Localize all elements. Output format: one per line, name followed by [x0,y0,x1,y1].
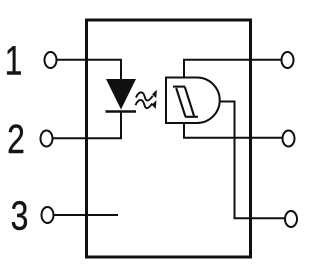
wire pin3 stub (N.C.) [54,214,119,216]
svg-text:1: 1 [5,38,23,84]
wire pin2 to LED cathode [53,112,122,139]
svg-text:3: 3 [11,193,29,239]
light emission arrow (lower) [136,100,157,109]
LED (infrared emitter) [106,79,136,110]
pin 3 terminal [42,207,54,223]
wire gate bottom to GND pin [184,123,283,138]
photodiode chip (slanted parallelogram) [173,87,198,117]
top-right terminal [282,52,294,68]
svg-text:2: 2 [7,116,25,162]
middle-right terminal [283,131,295,147]
package outline [87,20,251,257]
wire gate top to Vcc pin [184,60,282,78]
bottom-right terminal [285,211,297,227]
LED cathode bar [106,110,137,113]
pin 1 terminal [45,52,57,68]
wire gate output to bottom pin [220,102,286,219]
photo-detector gate (photo IC) [166,78,220,124]
wire pin1 to LED anode [57,60,122,80]
pin 2 terminal [41,131,53,147]
light emission arrow (upper) [136,90,157,101]
